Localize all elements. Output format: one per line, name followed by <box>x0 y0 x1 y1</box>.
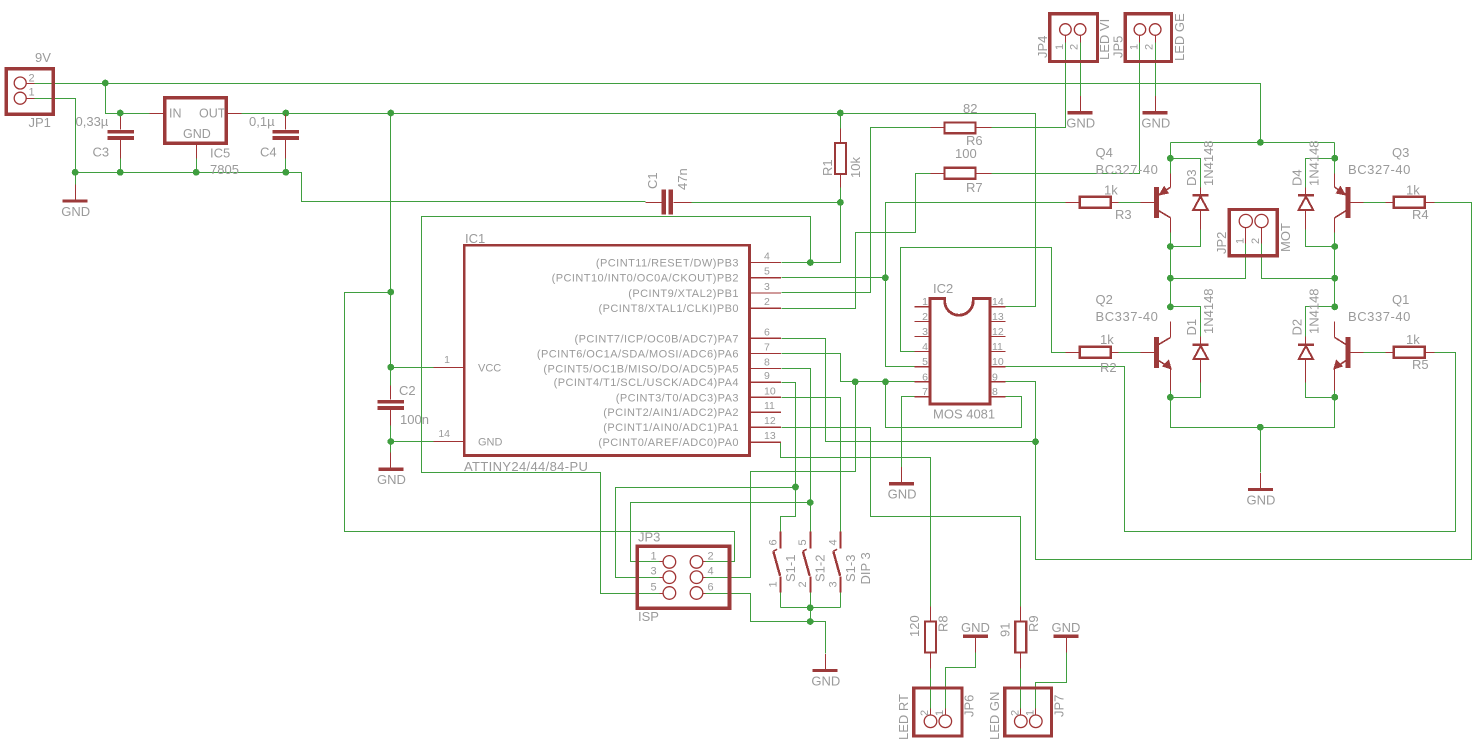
junction <box>1257 424 1264 431</box>
ground GND (JP5) <box>1155 96 1157 111</box>
svg-text:0,33µ: 0,33µ <box>76 114 109 129</box>
IC IC1 ATTINY24/44/84-PU <box>464 245 749 455</box>
JP3 pin 6 <box>690 587 703 600</box>
svg-text:GND: GND <box>1247 492 1276 507</box>
wire C2 bottom <box>390 426 392 442</box>
diode D4 1N4148 <box>1298 194 1314 197</box>
wire to D4 <box>1306 159 1335 188</box>
pin 7 PA6 <box>749 353 781 355</box>
svg-text:(PCINT8/XTAL1/CLKI)PB0: (PCINT8/XTAL1/CLKI)PB0 <box>598 303 739 315</box>
svg-text:GND: GND <box>1052 620 1081 635</box>
wire JP3 pin6 to GND <box>706 594 811 622</box>
svg-text:47n: 47n <box>675 168 690 190</box>
svg-text:(PCINT4/T1/SCL/USCK/ADC4)PA4: (PCINT4/T1/SCL/USCK/ADC4)PA4 <box>554 377 739 389</box>
pin 6 PA7 <box>749 337 781 339</box>
svg-text:3: 3 <box>828 581 840 587</box>
IC2 pin 4 <box>915 350 931 352</box>
wire R2 to Q2 base <box>1111 352 1144 354</box>
svg-text:GND: GND <box>1141 116 1170 131</box>
svg-text:(PCINT1/AIN0/ADC1)PA1: (PCINT1/AIN0/ADC1)PA1 <box>603 422 739 434</box>
wire D2 to node <box>1306 383 1335 398</box>
switch S1-3 <box>840 532 842 549</box>
IC2 pin 8 <box>990 396 1006 398</box>
pin 9 PA4 <box>749 381 781 383</box>
svg-text:BC337-40: BC337-40 <box>1096 309 1159 324</box>
svg-text:1k: 1k <box>1406 332 1420 347</box>
wire PB1 to R6 <box>782 128 931 293</box>
svg-text:7: 7 <box>922 386 928 398</box>
connector JP5 LED GE <box>1125 14 1171 62</box>
wire R6 to JP4 pin1 <box>992 37 1066 128</box>
svg-text:(PCINT0/AREF/ADC0)PA0: (PCINT0/AREF/ADC0)PA0 <box>598 437 739 449</box>
svg-text:14: 14 <box>438 428 450 440</box>
pin 5 PB2 <box>749 277 781 279</box>
svg-text:7: 7 <box>764 342 770 354</box>
svg-text:JP2: JP2 <box>1214 232 1229 254</box>
wire PB2 to R3 and IC2 pin5 <box>886 203 1066 367</box>
wire JP4 pin2 to GND <box>1080 37 1082 97</box>
svg-text:1N4148: 1N4148 <box>1307 140 1322 186</box>
svg-text:1N4148: 1N4148 <box>1307 288 1322 334</box>
svg-text:2: 2 <box>1250 238 1262 244</box>
svg-text:(PCINT2/AIN1/ADC2)PA2: (PCINT2/AIN1/ADC2)PA2 <box>603 407 739 419</box>
capacitor C1 47n <box>661 189 666 214</box>
wire <box>1334 143 1336 159</box>
ground GND (IC2) <box>901 467 903 482</box>
svg-text:100n: 100n <box>400 412 429 427</box>
junction <box>837 199 844 206</box>
IC2 pin 6 <box>915 381 931 383</box>
wire R5 to Q1 base <box>1364 352 1386 354</box>
svg-text:5: 5 <box>651 582 657 594</box>
svg-text:GND: GND <box>183 127 211 141</box>
pin 10 PA3 <box>749 396 781 398</box>
wire right mid column <box>1334 233 1336 307</box>
svg-text:(PCINT3/T0/ADC3)PA3: (PCINT3/T0/ADC3)PA3 <box>616 392 739 404</box>
svg-text:10: 10 <box>992 356 1004 368</box>
svg-text:C3: C3 <box>93 145 110 160</box>
junction <box>117 169 124 176</box>
wire IC2 pin7 to GND <box>902 397 915 468</box>
wire +5V to JP3 pin2 <box>345 293 735 562</box>
pin 3 PB1 <box>749 292 781 294</box>
junction <box>807 604 814 611</box>
IC2 pin 5 <box>915 366 931 368</box>
svg-text:IN: IN <box>169 107 182 121</box>
junction <box>807 259 814 266</box>
svg-text:1: 1 <box>1025 710 1037 716</box>
svg-text:JP3: JP3 <box>638 530 660 545</box>
svg-text:1: 1 <box>922 296 928 308</box>
svg-text:VCC: VCC <box>478 363 501 375</box>
junction <box>283 169 290 176</box>
wire to GND sym <box>390 442 392 453</box>
junction <box>1331 304 1338 311</box>
wire PA4 to S1-1 <box>781 488 796 532</box>
capacitor C3 0,33u <box>108 130 135 134</box>
wire 7805 GND <box>196 159 198 173</box>
junction <box>882 274 889 281</box>
svg-text:ATTINY24/44/84-PU: ATTINY24/44/84-PU <box>464 459 588 474</box>
svg-text:R9: R9 <box>1026 615 1041 632</box>
wire IC2 pin9 <box>1006 382 1036 442</box>
svg-text:1: 1 <box>29 87 35 99</box>
wire to GND <box>1260 428 1262 473</box>
svg-text:D3: D3 <box>1184 169 1199 186</box>
svg-text:8: 8 <box>992 386 998 398</box>
svg-text:82: 82 <box>963 101 977 116</box>
svg-text:10: 10 <box>764 385 776 397</box>
resistor R8 120 <box>925 622 936 653</box>
pin OUT <box>227 113 242 115</box>
svg-text:2: 2 <box>1069 44 1081 50</box>
svg-text:1: 1 <box>934 710 946 716</box>
JP3 pin 1 <box>663 556 676 569</box>
JP3 pin 2 <box>690 556 703 569</box>
ground GND (C2) <box>390 453 392 468</box>
junction <box>807 618 814 625</box>
svg-text:GND: GND <box>1066 116 1095 131</box>
junction <box>387 438 394 445</box>
IC2 pin 11 <box>990 350 1006 352</box>
wire VCC pin1 <box>391 367 434 369</box>
pin Q3 base <box>1351 202 1364 204</box>
junction <box>387 364 394 371</box>
svg-text:R3: R3 <box>1115 207 1132 222</box>
svg-text:C4: C4 <box>260 145 277 160</box>
wire R8 to JP6 pin2 <box>930 669 932 716</box>
pin 11 PA2 <box>749 411 781 413</box>
svg-text:2: 2 <box>922 311 928 323</box>
pin Q1 base <box>1351 352 1364 354</box>
IC2 pin 13 <box>990 321 1006 323</box>
wire PB3 to node <box>782 203 841 263</box>
wire Q2 emitter <box>1170 391 1172 398</box>
svg-text:LED RT: LED RT <box>896 694 911 740</box>
junction <box>102 80 109 87</box>
svg-text:7805: 7805 <box>210 162 239 177</box>
svg-text:GND: GND <box>961 620 990 635</box>
svg-text:2: 2 <box>919 710 931 716</box>
svg-text:100: 100 <box>955 146 977 161</box>
svg-text:8: 8 <box>764 356 770 368</box>
wire RESET to JP3 pin5 <box>422 217 811 594</box>
svg-text:C2: C2 <box>399 383 416 398</box>
capacitor C4 0,1u <box>273 130 300 134</box>
ground GND (bridge) <box>1260 473 1262 488</box>
switch S1-2 <box>810 532 812 549</box>
junction <box>837 110 844 117</box>
junction <box>1167 155 1174 162</box>
pin 1 VCC <box>434 367 465 369</box>
wire node to D1 <box>1171 307 1201 337</box>
wire 9V to 7805 IN <box>106 84 150 114</box>
junction <box>1167 243 1174 250</box>
svg-text:4: 4 <box>708 566 714 578</box>
IC2 pin 2 <box>915 321 931 323</box>
svg-text:S1-2: S1-2 <box>813 555 828 582</box>
wire D4 anode to node <box>1306 230 1335 247</box>
wire PA1 to R9 <box>782 428 1021 607</box>
wire switch common rail <box>781 607 841 609</box>
IC2 pin 10 <box>990 366 1006 368</box>
wire S1-2 bottom <box>810 593 812 622</box>
wire IC2 pin4 to R2 <box>901 248 1072 353</box>
transistor Q4 BC327-40 <box>1154 187 1159 218</box>
svg-text:1N4148: 1N4148 <box>1201 140 1216 186</box>
JP3 pin 4 <box>690 571 703 584</box>
svg-text:S1-3: S1-3 <box>843 555 858 582</box>
wire PA5 to S1-2 <box>782 369 811 532</box>
svg-text:2: 2 <box>797 581 809 587</box>
svg-text:(PCINT7/ICP/OC0B/ADC7)PA7: (PCINT7/ICP/OC0B/ADC7)PA7 <box>575 333 739 345</box>
pin Q2 base <box>1141 352 1155 354</box>
wire S1-1 bottom <box>780 593 782 608</box>
wire R1 bottom <box>840 188 842 203</box>
svg-text:Q1: Q1 <box>1392 292 1409 307</box>
pin 12 PA1 <box>749 426 781 428</box>
wire bridge top rail <box>1171 142 1335 144</box>
svg-text:IC1: IC1 <box>465 231 485 246</box>
junction <box>387 289 394 296</box>
svg-text:0,1µ: 0,1µ <box>249 114 275 129</box>
wire PA6 to IC2 pin6 <box>782 354 915 382</box>
svg-text:2: 2 <box>1010 710 1022 716</box>
svg-text:13: 13 <box>764 430 776 442</box>
svg-text:12: 12 <box>764 415 776 427</box>
wire GND to JP7 pin1 <box>1036 653 1067 716</box>
ground GND (input) <box>75 184 77 199</box>
pin 14 GND <box>434 441 465 443</box>
diode D2 1N4148 <box>1298 343 1314 346</box>
svg-text:MOT: MOT <box>1278 223 1293 252</box>
wire R3 to Q4 base <box>1119 202 1141 204</box>
svg-text:JP4: JP4 <box>1035 36 1050 58</box>
IC IC2 MOS 4081 <box>930 299 990 405</box>
connector JP4 LED VI <box>1050 14 1098 62</box>
svg-text:13: 13 <box>992 311 1004 323</box>
wire bottom rail <box>1171 398 1335 428</box>
junction <box>852 378 859 385</box>
svg-text:(PCINT11/RESET/DW)PB3: (PCINT11/RESET/DW)PB3 <box>596 258 739 270</box>
pin Q4 base <box>1141 202 1155 204</box>
svg-text:ISP: ISP <box>638 609 659 624</box>
transistor Q1 BC337-40 <box>1346 337 1351 368</box>
wire PA6 to JP3 pin4 <box>706 382 856 578</box>
junction <box>387 110 394 117</box>
wire GND pin14 <box>391 441 434 443</box>
svg-text:9: 9 <box>764 370 770 382</box>
wire <box>1170 143 1172 159</box>
svg-text:12: 12 <box>992 326 1004 338</box>
transistor Q3 BC327-40 <box>1346 187 1351 218</box>
svg-text:(PCINT5/OC1B/MISO/DO/ADC5)PA5: (PCINT5/OC1B/MISO/DO/ADC5)PA5 <box>543 363 739 375</box>
wire PA4 to JP3 pin3 <box>616 383 796 578</box>
diode D1 1N4148 <box>1193 343 1209 346</box>
svg-text:9: 9 <box>992 371 998 383</box>
svg-text:11: 11 <box>764 400 775 412</box>
resistor R2 <box>1080 347 1111 358</box>
svg-text:Q2: Q2 <box>1096 292 1113 307</box>
connector JP6 LED RT <box>914 688 962 736</box>
svg-text:D4: D4 <box>1290 169 1305 186</box>
IC2 pin 9 <box>990 381 1006 383</box>
svg-text:IC5: IC5 <box>210 146 230 161</box>
svg-text:GND: GND <box>811 673 840 688</box>
switch S1-1 <box>780 532 782 549</box>
svg-text:9V: 9V <box>35 50 51 65</box>
wire JP2 pin1 <box>1171 244 1246 279</box>
svg-text:DIP 3: DIP 3 <box>858 552 873 584</box>
junction <box>1032 438 1039 445</box>
transistor Q2 BC337-40 <box>1154 337 1159 368</box>
svg-text:4: 4 <box>764 251 770 263</box>
wire GND rail to C1 <box>76 173 646 202</box>
wire JP1 pin1 to GND <box>35 99 76 173</box>
svg-text:10k: 10k <box>848 157 863 178</box>
svg-text:BC337-40: BC337-40 <box>1348 309 1411 324</box>
resistor R4 <box>1394 197 1425 208</box>
svg-text:R1: R1 <box>820 159 835 176</box>
svg-text:Q3: Q3 <box>1392 145 1409 160</box>
svg-text:(PCINT6/OC1A/SDA/MOSI/ADC6)PA6: (PCINT6/OC1A/SDA/MOSI/ADC6)PA6 <box>537 349 739 361</box>
svg-text:4: 4 <box>922 341 928 353</box>
svg-text:GND: GND <box>377 472 406 487</box>
svg-text:3: 3 <box>764 281 770 293</box>
svg-text:1k: 1k <box>1104 183 1118 198</box>
pin IN <box>150 113 165 115</box>
junction <box>1331 275 1338 282</box>
svg-text:R8: R8 <box>936 615 951 632</box>
svg-text:GND: GND <box>61 204 90 219</box>
wire R1 top <box>840 114 842 129</box>
svg-text:6: 6 <box>708 582 714 594</box>
capacitor C2 100n <box>377 400 404 404</box>
svg-text:1: 1 <box>444 354 450 366</box>
svg-text:LED GE: LED GE <box>1172 13 1187 61</box>
resistor R5 <box>1394 347 1425 358</box>
connector JP3 ISP <box>637 546 729 608</box>
svg-text:1: 1 <box>651 550 657 562</box>
diode D3 1N4148 <box>1193 194 1209 197</box>
svg-text:5: 5 <box>764 266 770 278</box>
svg-text:R4: R4 <box>1412 207 1429 222</box>
svg-text:MOS 4081: MOS 4081 <box>933 407 995 422</box>
wire to D3 <box>1171 159 1201 188</box>
wire +5V down to VCC/C2 <box>390 114 392 386</box>
ground GND (JP7) <box>1054 634 1079 637</box>
resistor R6 <box>945 122 976 133</box>
svg-text:LED GN: LED GN <box>987 692 1002 740</box>
svg-text:JP1: JP1 <box>29 115 51 130</box>
wire to GND sym <box>811 622 826 654</box>
wire left mid column <box>1170 233 1172 307</box>
wire to Q3 emitter <box>1334 159 1336 174</box>
wire JP2 pin2 <box>1262 244 1335 279</box>
svg-text:R7: R7 <box>966 180 983 195</box>
svg-text:IC2: IC2 <box>933 281 953 296</box>
IC2 pin 1 <box>915 306 931 308</box>
connector JP7 LED GN <box>1005 688 1052 736</box>
junction <box>1167 394 1174 401</box>
wire Q1 emitter <box>1334 391 1336 398</box>
svg-text:11: 11 <box>992 341 1003 353</box>
svg-text:120: 120 <box>907 615 922 637</box>
pin 4 PB3 <box>749 262 781 264</box>
svg-text:2: 2 <box>764 296 770 308</box>
svg-text:3: 3 <box>651 566 657 578</box>
junction <box>283 110 290 117</box>
svg-text:C1: C1 <box>645 172 660 189</box>
svg-text:(PCINT9/XTAL2)PB1: (PCINT9/XTAL2)PB1 <box>628 288 739 300</box>
wire R7 to JP5 pin1 <box>992 37 1140 174</box>
svg-text:6: 6 <box>922 371 928 383</box>
junction <box>807 499 814 506</box>
junction <box>1331 155 1338 162</box>
ground GND (JP4) <box>1080 96 1082 111</box>
wire R4 to Q3 base <box>1364 202 1386 204</box>
svg-text:5: 5 <box>922 356 928 368</box>
wire PB0 to R7 <box>782 174 931 309</box>
connector JP2 MOT <box>1229 210 1277 256</box>
junction <box>1167 304 1174 311</box>
wire +5V rail to IC2 pin14 <box>242 114 1036 307</box>
JP3 pin 5 <box>663 587 676 600</box>
resistor R7 <box>945 168 976 179</box>
wire node to D2 <box>1306 307 1335 337</box>
wire IC2 pin10 to R5 <box>1006 353 1456 532</box>
svg-text:1: 1 <box>1235 238 1247 244</box>
svg-text:5: 5 <box>797 539 809 545</box>
svg-text:4: 4 <box>828 539 840 545</box>
svg-text:BC327-40: BC327-40 <box>1348 162 1411 177</box>
junction <box>1331 394 1338 401</box>
resistor R3 <box>1080 197 1111 208</box>
wire R9 to JP7 pin2 <box>1020 669 1022 716</box>
svg-text:2: 2 <box>708 550 714 562</box>
junction <box>792 484 799 491</box>
svg-text:D1: D1 <box>1184 319 1199 336</box>
svg-text:(PCINT10/INT0/OC0A/CKOUT)PB2: (PCINT10/INT0/OC0A/CKOUT)PB2 <box>552 273 739 285</box>
regulator IC5 7805 <box>165 98 227 144</box>
svg-text:JP5: JP5 <box>1111 36 1126 58</box>
junction <box>117 110 124 117</box>
wire C3 bottom <box>120 159 122 173</box>
junction <box>72 169 79 176</box>
ground GND (JP6) <box>963 634 988 637</box>
wire PA0 to R8 <box>781 443 931 607</box>
svg-text:R5: R5 <box>1412 357 1429 372</box>
wire PA7 to R4 <box>1036 203 1472 560</box>
wire PB2 <box>782 277 886 279</box>
svg-text:GND: GND <box>478 437 503 449</box>
wire C4 bottom <box>285 159 287 173</box>
wire S1-3 bottom <box>840 593 842 608</box>
IC2 pin 3 <box>915 335 931 337</box>
junction <box>193 169 200 176</box>
svg-text:BC327-40: BC327-40 <box>1096 162 1159 177</box>
svg-text:91: 91 <box>998 623 1013 637</box>
junction <box>882 378 889 385</box>
wire D1 to node <box>1171 383 1201 398</box>
svg-text:JP6: JP6 <box>962 695 977 717</box>
pin 8 PA5 <box>749 367 781 369</box>
svg-text:6: 6 <box>764 326 770 338</box>
junction <box>1257 139 1264 146</box>
wire C1 to R1 node <box>692 202 841 204</box>
pin 2 PB0 <box>749 307 781 309</box>
junction <box>1167 275 1174 282</box>
